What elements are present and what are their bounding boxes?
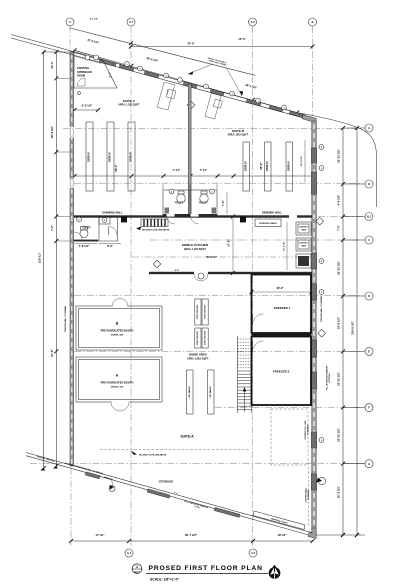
svg-text:DISPLAY: DISPLAY xyxy=(266,161,269,171)
svg-text:7'-11": 7'-11" xyxy=(173,168,181,172)
svg-text:15'-5": 15'-5" xyxy=(238,37,246,41)
svg-text:16'-10 1/2": 16'-10 1/2" xyxy=(301,156,303,167)
svg-text:7'-6": 7'-6" xyxy=(221,199,225,206)
svg-text:A: A xyxy=(368,126,370,130)
svg-text:A.1: A.1 xyxy=(127,551,132,555)
svg-text:A: A xyxy=(69,20,71,24)
svg-text:7'-0": 7'-0" xyxy=(50,224,54,231)
svg-text:PRE-FABRICATED BOOTH: PRE-FABRICATED BOOTH xyxy=(101,381,134,385)
svg-text:MODEL 355: MODEL 355 xyxy=(111,335,124,337)
svg-text:16'-10 1/2": 16'-10 1/2" xyxy=(337,427,341,441)
svg-text:28'-0": 28'-0" xyxy=(259,162,263,170)
svg-text:18'-10 1/2": 18'-10 1/2" xyxy=(337,148,341,162)
svg-text:EXISTING WALL TO REMAIN: EXISTING WALL TO REMAIN xyxy=(320,295,323,321)
svg-text:WORK AREA: WORK AREA xyxy=(189,353,208,357)
svg-text:B: B xyxy=(312,20,314,24)
svg-text:DISPLAY: DISPLAY xyxy=(130,152,133,162)
svg-text:E: E xyxy=(368,350,370,354)
svg-text:B: B xyxy=(368,182,370,186)
svg-text:6: 6 xyxy=(104,220,105,222)
svg-text:6'-6": 6'-6" xyxy=(107,244,114,248)
svg-text:STORAGE: STORAGE xyxy=(159,480,173,484)
svg-text:18'-8 1/2": 18'-8 1/2" xyxy=(337,316,341,329)
svg-text:DISPLAY: DISPLAY xyxy=(88,152,91,162)
svg-text:(TYPICAL): (TYPICAL) xyxy=(328,373,331,383)
svg-text:5: 5 xyxy=(78,219,79,221)
svg-text:OVEN: OVEN xyxy=(301,246,307,248)
svg-text:6'-3 1/2": 6'-3 1/2" xyxy=(82,104,93,108)
svg-text:16'-10 1/2": 16'-10 1/2" xyxy=(337,260,341,274)
svg-text:20'-2 1/2": 20'-2 1/2" xyxy=(337,485,341,498)
svg-text:124'-8 1/2": 124'-8 1/2" xyxy=(351,320,355,334)
svg-text:SECOND FLOOR LINE ABOVE: SECOND FLOOR LINE ABOVE xyxy=(142,228,170,231)
svg-text:A.2: A.2 xyxy=(251,551,256,555)
svg-text:1: 1 xyxy=(179,80,180,82)
svg-text:S/S TABLE: S/S TABLE xyxy=(209,386,212,398)
svg-text:7'-5": 7'-5" xyxy=(337,224,341,231)
svg-text:9: 9 xyxy=(165,75,166,77)
svg-text:36'-9 1/2": 36'-9 1/2" xyxy=(50,125,54,138)
svg-text:2: 2 xyxy=(321,147,322,149)
svg-text:PRE-FABRICATED BOOTH: PRE-FABRICATED BOOTH xyxy=(101,329,134,333)
svg-text:16'-4 1/2": 16'-4 1/2" xyxy=(283,241,286,251)
svg-text:C: C xyxy=(368,238,370,242)
svg-text:28'-0": 28'-0" xyxy=(114,164,118,172)
svg-text:TOILET: TOILET xyxy=(175,202,184,205)
svg-text:SUITE C: SUITE C xyxy=(123,99,136,103)
svg-text:58'-0 1/2": 58'-0 1/2" xyxy=(206,256,218,259)
svg-text:67'-8": 67'-8" xyxy=(50,349,54,357)
svg-text:MODEL 355: MODEL 355 xyxy=(111,387,124,389)
svg-text:72'-3": 72'-3" xyxy=(187,42,195,46)
svg-text:EXISTING: EXISTING xyxy=(77,66,89,70)
svg-text:G: G xyxy=(368,462,370,466)
svg-text:4'-9 1/2": 4'-9 1/2" xyxy=(337,194,341,205)
svg-text:17'-6": 17'-6" xyxy=(227,239,231,247)
svg-text:1: 1 xyxy=(205,86,206,88)
svg-text:STEEL SHELVING: STEEL SHELVING xyxy=(204,330,206,345)
svg-text:D: D xyxy=(368,294,370,298)
svg-text:3: 3 xyxy=(321,168,322,170)
svg-text:SUITE-A: SUITE-A xyxy=(180,435,194,439)
svg-text:FREEZER 2: FREEZER 2 xyxy=(273,370,290,374)
svg-text:3: 3 xyxy=(321,292,322,294)
svg-text:AREA: 5,852 SQ/FT.: AREA: 5,852 SQ/FT. xyxy=(187,358,209,361)
svg-text:ROOM: ROOM xyxy=(77,74,85,78)
svg-text:1: 1 xyxy=(126,64,127,66)
svg-text:2: 2 xyxy=(171,191,172,193)
svg-text:A.2: A.2 xyxy=(250,20,255,24)
svg-text:7'-11": 7'-11" xyxy=(200,168,208,172)
svg-text:DEMISING WALL: DEMISING WALL xyxy=(102,212,123,215)
svg-text:36'-7 1/2": 36'-7 1/2" xyxy=(185,533,198,537)
svg-text:TOILET: TOILET xyxy=(82,227,91,230)
svg-text:AREA: 1,531 SQ/FT.: AREA: 1,531 SQ/FT. xyxy=(118,104,140,107)
svg-text:7'-8 1/2": 7'-8 1/2" xyxy=(79,244,90,248)
svg-text:DISPLAY: DISPLAY xyxy=(109,152,112,162)
svg-text:SCALE: 1/8"=1'-0": SCALE: 1/8"=1'-0" xyxy=(150,578,180,582)
svg-text:A2.1: A2.1 xyxy=(134,570,140,574)
svg-text:STEEL SHELVING: STEEL SHELVING xyxy=(204,304,206,319)
svg-text:18'-10": 18'-10" xyxy=(277,533,287,537)
svg-text:4'-0": 4'-0" xyxy=(175,269,180,272)
svg-text:AREA: 1,264 SQ/FT.: AREA: 1,264 SQ/FT. xyxy=(184,248,207,251)
svg-text:2: 2 xyxy=(136,565,138,569)
svg-text:16'-10 1/2": 16'-10 1/2" xyxy=(337,371,341,385)
svg-text:SECOND FLOOR LINE ABOVE: SECOND FLOOR LINE ABOVE xyxy=(139,454,167,457)
svg-text:B.1: B.1 xyxy=(367,215,372,219)
svg-text:2: 2 xyxy=(321,440,322,442)
svg-text:EDIBLE KITCHEN: EDIBLE KITCHEN xyxy=(182,243,209,247)
svg-text:S/S TABLE: S/S TABLE xyxy=(188,386,191,398)
svg-text:4'-1 1/2": 4'-1 1/2" xyxy=(90,18,98,21)
svg-text:DEMISING WALL: DEMISING WALL xyxy=(262,212,283,215)
svg-text:CONVECT: CONVECT xyxy=(299,227,309,229)
svg-text:OVEN: OVEN xyxy=(301,230,307,232)
svg-text:FREEZER 1: FREEZER 1 xyxy=(274,306,291,310)
svg-text:125'-11": 125'-11" xyxy=(38,252,42,263)
svg-text:STEEL SHELVING: STEEL SHELVING xyxy=(197,330,199,345)
svg-text:18'-2": 18'-2" xyxy=(276,286,284,290)
svg-text:A.1: A.1 xyxy=(129,20,134,24)
svg-text:CONVECT: CONVECT xyxy=(299,243,309,245)
svg-text:AREA: 1242 SQ/FT.: AREA: 1242 SQ/FT. xyxy=(228,134,249,137)
svg-text:1: 1 xyxy=(257,100,258,102)
svg-text:17'-10": 17'-10" xyxy=(95,533,105,537)
svg-text:PROSED FIRST FLOOR PLAN: PROSED FIRST FLOOR PLAN xyxy=(149,565,263,572)
svg-text:WORKING TABLE: WORKING TABLE xyxy=(259,222,277,225)
svg-text:TOILET: TOILET xyxy=(199,202,208,205)
svg-text:STEEL SHELVING: STEEL SHELVING xyxy=(197,304,199,319)
svg-text:2: 2 xyxy=(211,191,212,193)
svg-text:1: 1 xyxy=(139,68,140,70)
svg-text:2: 2 xyxy=(321,261,322,263)
svg-text:DISPLAY: DISPLAY xyxy=(287,161,290,171)
svg-text:SPRINKLER: SPRINKLER xyxy=(77,70,92,74)
svg-text:13'-4": 13'-4" xyxy=(50,61,54,69)
svg-text:DISPLAY: DISPLAY xyxy=(244,161,247,171)
svg-text:EXISTING WALL TO REMAIN: EXISTING WALL TO REMAIN xyxy=(64,305,67,331)
svg-text:SUITE B: SUITE B xyxy=(232,129,245,133)
